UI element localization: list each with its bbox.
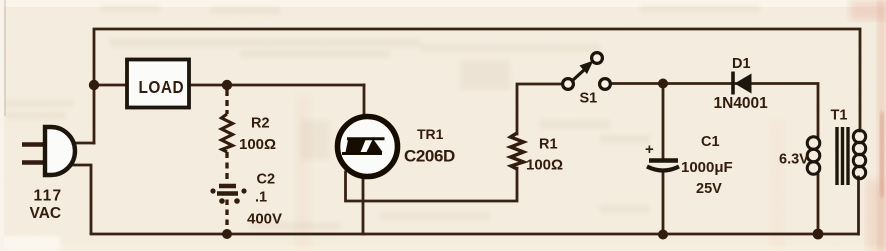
svg-text:C2: C2 — [257, 172, 276, 188]
scan stain right edge — [877, 0, 886, 251]
node junction dot R2 top — [222, 80, 232, 90]
svg-text:C206D: C206D — [404, 147, 455, 166]
svg-text:S1: S1 — [580, 91, 598, 107]
core — [835, 127, 838, 185]
svg-text:1N4001: 1N4001 — [714, 95, 769, 112]
svg-text:6.3V: 6.3V — [779, 152, 809, 168]
node junction dot transformer bottom — [813, 229, 824, 240]
wire transformer primary bottom — [817, 175, 820, 234]
primary winding — [807, 137, 820, 175]
wire switch to C1 D1 transformer — [611, 84, 818, 138]
resistor R1 — [511, 133, 524, 169]
svg-text:117: 117 — [34, 188, 63, 205]
svg-text:VAC: VAC — [30, 205, 62, 222]
node junction dot C2 bottom — [222, 229, 232, 239]
capacitor C1 — [645, 134, 733, 197]
svg-text:T1: T1 — [831, 108, 848, 124]
node junction dot left — [89, 80, 99, 90]
node junction dot C1 bottom — [658, 230, 668, 240]
svg-text:TR1: TR1 — [417, 126, 444, 142]
svg-text:400V: 400V — [247, 211, 282, 228]
svg-text:25V: 25V — [696, 181, 722, 197]
wire C1 bottom — [662, 170, 665, 234]
page bleed-through ghosting — [6, 4, 760, 230]
wire dashed R2 top lead — [225, 90, 228, 114]
wire R1 top to switch — [517, 84, 562, 134]
wire triac top — [363, 85, 366, 139]
left page edge line — [4, 0, 6, 116]
svg-text:LOAD: LOAD — [139, 78, 185, 97]
svg-text:+: + — [645, 141, 654, 158]
transformer T1 — [779, 108, 866, 186]
wire bottom rail — [91, 233, 858, 236]
wire load to triac — [188, 84, 364, 87]
svg-text:R2: R2 — [251, 116, 270, 132]
wire transformer secondary bottom — [857, 177, 860, 234]
plug 117 VAC — [22, 127, 75, 222]
svg-text:.1: .1 — [255, 190, 267, 206]
wire triac bottom — [359, 154, 363, 235]
diode D1 — [714, 56, 769, 112]
capacitor C2 — [210, 186, 246, 204]
faint pink band — [295, 95, 311, 251]
svg-text:100Ω: 100Ω — [526, 157, 563, 174]
switch S1 — [563, 53, 611, 107]
svg-text:1000μF: 1000μF — [681, 159, 733, 176]
wire gate to R1 — [346, 154, 518, 201]
secondary winding — [853, 130, 865, 178]
wire plug top — [70, 142, 94, 145]
wire top rail — [94, 29, 860, 143]
triac TR1 — [338, 117, 398, 177]
node junction dot C1 top — [658, 79, 668, 89]
wire load left — [94, 84, 126, 87]
svg-text:R1: R1 — [539, 137, 558, 153]
wire dashed R2 to C2 — [225, 152, 228, 183]
svg-text:C1: C1 — [701, 134, 720, 150]
svg-text:100Ω: 100Ω — [239, 136, 276, 153]
svg-text:D1: D1 — [732, 56, 751, 72]
wire plug bottom — [67, 165, 91, 233]
resistor R2 — [222, 114, 233, 152]
LOAD box — [127, 60, 189, 108]
wire C1 down — [662, 84, 665, 159]
wire dashed C2 bottom lead — [225, 200, 228, 232]
